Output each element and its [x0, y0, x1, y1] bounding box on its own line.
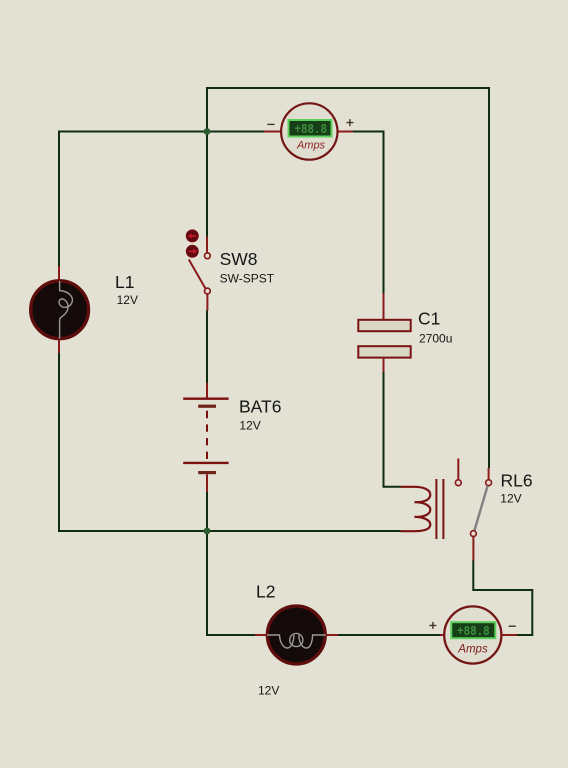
- lamp L1: [31, 281, 89, 339]
- lamp L2 pin left: [255, 634, 267, 636]
- switch SW8 pin top: [206, 237, 208, 253]
- relay RL6 lever contact circle: [471, 531, 477, 537]
- svg-text:Amps: Amps: [296, 140, 326, 152]
- battery BAT6 pin bottom: [206, 474, 208, 492]
- svg-text:C1: C1: [418, 308, 440, 328]
- relay RL6 core: [436, 479, 443, 539]
- battery BAT6 plate long bottom: [183, 462, 228, 464]
- relay RL6: [401, 459, 492, 561]
- ammeter U2 pin left: [440, 634, 445, 636]
- ammeter U1 minus mark: [267, 123, 274, 125]
- relay RL6 pin bottom: [472, 537, 474, 561]
- svg-text:+88.8: +88.8: [295, 122, 328, 138]
- ammeter U2 minus mark: [509, 625, 516, 627]
- lamp L1 pin top: [58, 266, 60, 281]
- ammeter U2 display: [451, 622, 495, 638]
- wire capacitor to relay coil: [384, 372, 401, 487]
- svg-text:BAT6: BAT6: [239, 396, 281, 416]
- svg-text:Amps: Amps: [457, 643, 488, 655]
- switch SW8 pin bottom: [206, 294, 208, 311]
- svg-text:L2: L2: [256, 582, 275, 602]
- ammeter U1 pin right: [338, 131, 353, 133]
- wire left vertical lower: [59, 352, 401, 531]
- wire switch to battery: [206, 311, 208, 384]
- svg-text:2700u: 2700u: [419, 332, 452, 346]
- battery BAT6 plate long top: [183, 398, 228, 400]
- wire lamp L2 to ammeter U2: [338, 634, 440, 636]
- wire relay lever to ammeter U2 right: [473, 560, 532, 635]
- svg-text:SW8: SW8: [220, 249, 258, 269]
- svg-text:12V: 12V: [239, 419, 260, 433]
- relay RL6 pin right: [488, 468, 490, 480]
- capacitor C1 pin top: [383, 293, 385, 320]
- svg-text:L1: L1: [115, 272, 134, 292]
- battery BAT6 pin top: [206, 383, 208, 398]
- ammeter U1 body: [281, 103, 337, 159]
- relay RL6 coil: [401, 487, 431, 531]
- svg-text:12V: 12V: [117, 293, 138, 307]
- capacitor C1 plate bottom: [358, 346, 410, 357]
- battery BAT6 dashed link: [206, 411, 208, 461]
- node J1: [204, 128, 211, 135]
- relay RL6 lever: [474, 486, 487, 531]
- node J2: [204, 528, 211, 535]
- ammeter U1 pin left: [264, 131, 281, 133]
- switch SW8 top contact circle: [205, 253, 211, 259]
- relay RL6 pole contact circle: [455, 480, 461, 486]
- svg-text:12V: 12V: [500, 492, 521, 506]
- svg-text:SW-SPST: SW-SPST: [220, 272, 275, 286]
- wire top horizontal net: [207, 88, 489, 468]
- wire junction J2 to lamp L2: [207, 531, 255, 635]
- ammeter U2 pin right: [502, 634, 518, 636]
- switch SW8 lever: [189, 260, 206, 289]
- ammeter U2 body: [444, 606, 501, 663]
- svg-text:+88.8: +88.8: [457, 624, 490, 640]
- lamp L2 pin right: [326, 634, 338, 636]
- switch SW8: [186, 230, 210, 311]
- wire junction J1 to switch: [206, 132, 208, 237]
- ammeter U2: [429, 606, 517, 663]
- capacitor C1: [358, 293, 410, 372]
- switch SW8 bottom contact circle: [205, 288, 211, 294]
- switch SW8 actuator button down: [186, 245, 198, 257]
- svg-text:RL6: RL6: [501, 471, 533, 491]
- battery BAT6 plate short bottom: [198, 471, 216, 474]
- wire ammeter U1 to capacitor: [353, 132, 384, 294]
- ammeter U2 plus mark: [429, 622, 436, 629]
- battery BAT6 plate short top: [198, 405, 216, 408]
- wire battery to junction J2: [206, 492, 208, 531]
- svg-text:12V: 12V: [258, 684, 279, 698]
- ammeter U1 display: [289, 120, 332, 137]
- battery BAT6: [183, 383, 228, 492]
- ammeter U1: [264, 103, 353, 159]
- ammeter U1 plus mark: [346, 119, 353, 126]
- lamp L1 pin bottom: [58, 339, 60, 354]
- capacitor C1 plate top: [358, 320, 410, 331]
- relay RL6 right contact circle: [486, 480, 492, 486]
- wire left net horizontal y131: [59, 132, 264, 267]
- switch SW8 actuator button up: [186, 230, 198, 242]
- relay RL6 pole stub: [457, 459, 459, 480]
- capacitor C1 pin bottom: [383, 357, 385, 372]
- lamp L2: [267, 606, 326, 664]
